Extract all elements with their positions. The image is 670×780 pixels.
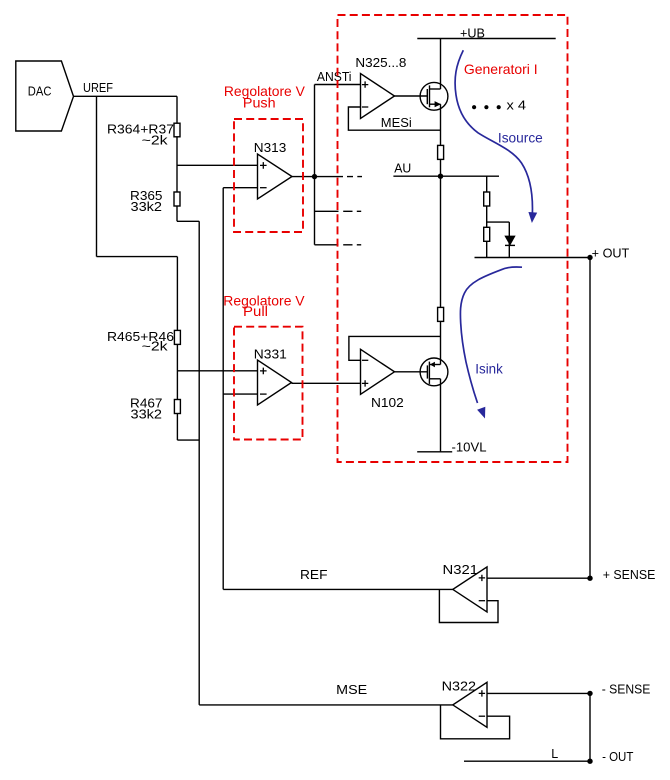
wire Q2 source to ground [440, 379, 442, 452]
svg-text:MESi: MESi [381, 116, 412, 130]
wire REF vertical [222, 188, 224, 590]
svg-text:33k2: 33k2 [131, 408, 163, 422]
blue arrow Isource [455, 50, 543, 223]
resistor branch lower [484, 227, 490, 241]
svg-text:Generatori I: Generatori I [464, 61, 538, 77]
svg-text:+UB: +UB [460, 26, 485, 40]
wire MSE long vertical [198, 221, 200, 705]
svg-text:- OUT: - OUT [602, 750, 634, 764]
wire REF horizontal [223, 588, 453, 590]
svg-text:- SENSE: - SENSE [602, 682, 651, 696]
dashed box Regolatore V Pull [223, 293, 305, 440]
wire -SENSE to -OUT vertical [589, 693, 591, 761]
wire N322 plus input [487, 692, 590, 694]
wire N313 plus input [177, 164, 258, 166]
wire ANSTi [315, 84, 361, 86]
resistor R467 [130, 397, 180, 422]
wire pull divider vertical [176, 257, 178, 441]
wire left branch horizontal [97, 256, 178, 258]
wire generator bus vertical [314, 85, 316, 245]
wire dashed continuation row 2 [343, 210, 361, 212]
junction dot +SENSE [587, 576, 592, 581]
x 4 dots [472, 99, 526, 113]
transistor Q1 MESi [395, 82, 448, 110]
wire pull divider jog [177, 439, 199, 441]
wire MSE horizontal [199, 704, 453, 706]
wire N322 feedback loop [441, 705, 510, 739]
wire -OUT horizontal [464, 760, 590, 762]
diode D1 [505, 236, 515, 245]
svg-text:x 4: x 4 [507, 99, 527, 113]
wire N313 minus input [223, 187, 257, 189]
wire diode vertical [508, 222, 510, 257]
svg-text:N331: N331 [254, 348, 287, 362]
wire dashed continuation row 1 [347, 176, 362, 178]
svg-text:MSE: MSE [336, 683, 367, 697]
wire N102 minus feedback loop [349, 336, 441, 360]
svg-text:Pull: Pull [243, 303, 268, 319]
wire N331 minus input [223, 393, 257, 395]
junction dot +OUT [587, 255, 592, 260]
wire UREF horizontal [74, 95, 178, 97]
ground -10VL [417, 441, 486, 455]
svg-text:~2k: ~2k [142, 340, 169, 354]
dashed box Regolatore V Push [224, 83, 306, 232]
wire Q1 drain vertical [440, 39, 442, 90]
svg-text:+ OUT: + OUT [592, 246, 630, 260]
wire N325 minus feedback MESi loop [348, 107, 440, 130]
junction dot N313 output [312, 174, 317, 179]
DAC block [16, 61, 74, 131]
svg-text:N321: N321 [443, 563, 479, 577]
op-amp N322 [442, 679, 487, 727]
wire Q1 source down through AU to Q2 drain [440, 104, 442, 364]
svg-text:+ SENSE: + SENSE [603, 568, 656, 582]
svg-text:N325...8: N325...8 [355, 56, 406, 70]
svg-text:Isource: Isource [498, 129, 543, 145]
dashed box Generatori I [338, 15, 568, 462]
op-amp N102 [361, 349, 404, 410]
wire left branch vertical [96, 96, 98, 256]
wire dashed continuation row 3 [343, 244, 361, 246]
resistor R465+R466 [107, 330, 180, 354]
wire branch jog to diode [487, 221, 510, 223]
svg-text:N322: N322 [442, 679, 477, 693]
transistor Q2 [395, 358, 448, 386]
wire N321 plus input [487, 577, 590, 579]
wire +OUT to +SENSE vertical [589, 258, 591, 579]
svg-text:UREF: UREF [83, 81, 113, 95]
op-amp N313 [254, 141, 292, 199]
wire push divider vertical [176, 96, 178, 221]
op-amp N325...8 [355, 56, 406, 118]
resistor below Q1 [438, 145, 444, 159]
svg-text:-10VL: -10VL [452, 441, 487, 455]
svg-text:33k2: 33k2 [131, 200, 163, 214]
svg-text:AU: AU [394, 161, 411, 175]
resistor above Q2 [438, 307, 444, 321]
wire N331 plus input [177, 370, 257, 372]
svg-text:REF: REF [300, 568, 328, 582]
svg-text:ANSTi: ANSTi [317, 70, 352, 84]
junction dot -OUT [587, 759, 592, 764]
op-amp N321 [443, 563, 488, 612]
wire bus stub 3 [315, 244, 339, 246]
resistor R364+R377 [107, 123, 180, 148]
wire bus stub 2 [315, 210, 339, 212]
junction dot -SENSE [587, 691, 592, 696]
power rail +UB [417, 26, 555, 40]
svg-text:N313: N313 [254, 141, 287, 155]
op-amp N331 [254, 348, 292, 405]
wire N331 output to N102 plus [292, 382, 361, 384]
wire push divider jog [177, 220, 199, 222]
svg-text:DAC: DAC [28, 84, 52, 98]
wire +OUT rail [475, 257, 591, 259]
node AU [393, 161, 499, 179]
svg-text:~2k: ~2k [142, 133, 169, 147]
svg-text:N102: N102 [371, 396, 404, 410]
svg-text:Isink: Isink [475, 361, 503, 377]
resistor branch upper [484, 192, 490, 206]
wire branch vertical with resistors [486, 176, 488, 257]
resistor R365 [130, 189, 180, 214]
blue arrow Isink [460, 267, 522, 418]
svg-text:L: L [551, 747, 558, 761]
wire N321 feedback loop [439, 589, 498, 622]
wire N313 output [292, 176, 343, 178]
svg-text:Push: Push [243, 94, 276, 110]
